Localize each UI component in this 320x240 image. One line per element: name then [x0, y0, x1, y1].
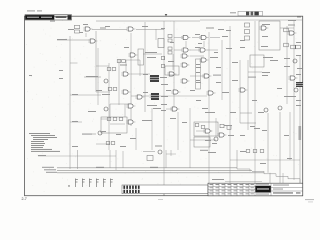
- svg-text:2-7: 2-7: [22, 197, 27, 201]
